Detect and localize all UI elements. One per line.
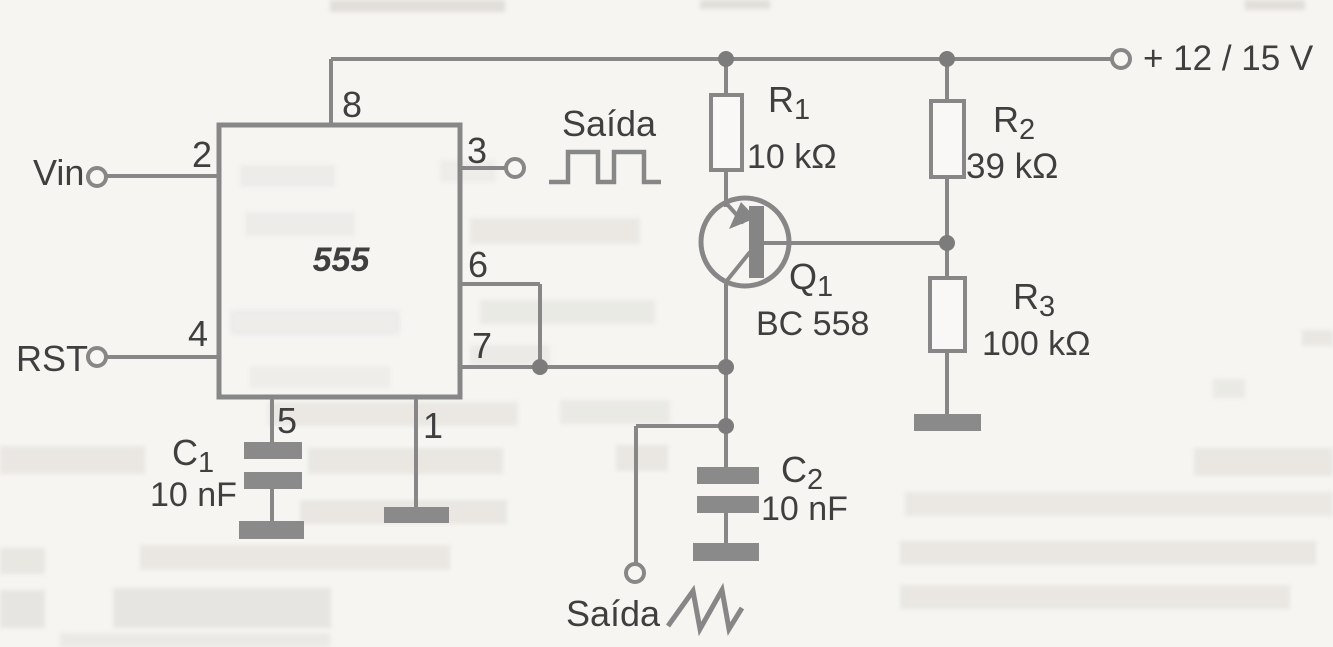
- transistor Q1 base bar: [749, 206, 764, 278]
- svg-text:Saída: Saída: [566, 593, 661, 634]
- svg-text:8: 8: [342, 84, 362, 125]
- terminal RST: [88, 348, 106, 366]
- junction dot collector/pin7: [718, 359, 734, 375]
- transistor Q1 collector lead: [725, 252, 750, 283]
- svg-text:+ 12 / 15 V: + 12 / 15 V: [1143, 39, 1314, 78]
- capacitor C2 bottom plate: [697, 496, 759, 513]
- capacitor C2 top plate: [697, 467, 759, 484]
- svg-text:3: 3: [467, 130, 487, 171]
- svg-text:39 kΩ: 39 kΩ: [966, 147, 1058, 186]
- resistor R3 body: [930, 278, 965, 351]
- wire: R2 to base node: [945, 177, 949, 278]
- capacitor C1 bottom plate: [244, 472, 302, 489]
- ground below pin 1: [384, 507, 449, 523]
- svg-text:RST: RST: [16, 338, 88, 379]
- svg-text:10 kΩ: 10 kΩ: [747, 138, 837, 176]
- wire: pin 1 down to ground: [414, 397, 418, 507]
- wire: transistor base to R2/R3 node: [764, 241, 947, 245]
- svg-text:Saída: Saída: [562, 103, 657, 144]
- ground below R3: [914, 414, 981, 431]
- wire: C1 lower plate to ground: [270, 489, 274, 521]
- wire: C2 lower plate to ground: [724, 513, 728, 543]
- IC U1 555 body: [219, 125, 460, 397]
- wire: pin 2 to Vin terminal: [106, 174, 219, 178]
- terminal Vin: [88, 168, 106, 186]
- transistor Q1 emitter lead: [726, 203, 744, 223]
- svg-text:1: 1: [423, 405, 443, 446]
- svg-text:Vin: Vin: [33, 152, 84, 193]
- transistor Q1 circle: [701, 198, 789, 286]
- svg-text:7: 7: [472, 325, 492, 366]
- svg-text:555: 555: [313, 241, 371, 279]
- svg-text:10 nF: 10 nF: [150, 476, 237, 514]
- svg-text:2: 2: [192, 134, 212, 175]
- square wave symbol: [549, 152, 661, 182]
- resistor R1 body: [711, 95, 742, 170]
- ground below C1: [239, 521, 304, 539]
- wire: rail down to R1: [724, 59, 728, 95]
- wire: pin 6 horizontal: [461, 282, 540, 286]
- svg-text:5: 5: [277, 400, 297, 441]
- wire: pin 3 to output terminal: [461, 166, 506, 170]
- svg-text:6: 6: [468, 244, 488, 285]
- wire: pin 5 down to C1: [270, 397, 274, 442]
- transistor Q1 emitter arrow: [729, 202, 756, 229]
- junction dot pin6/pin7: [532, 359, 548, 375]
- wire: pin 8 to rail: [329, 59, 333, 125]
- wire: transistor collector down to node A: [724, 280, 728, 426]
- capacitor C1 top plate: [244, 442, 302, 459]
- wire: rail down to R2: [945, 59, 949, 101]
- junction dot node A: [718, 418, 734, 434]
- wire: R3 to ground: [945, 351, 949, 414]
- svg-text:100 kΩ: 100 kΩ: [982, 325, 1091, 363]
- svg-text:10 nF: 10 nF: [761, 490, 848, 528]
- terminal Saida sawtooth output: [626, 564, 644, 582]
- resistor R2 body: [931, 101, 964, 177]
- junction dot rail/R1: [718, 51, 734, 67]
- wire: pin 7 to transistor collector node: [461, 365, 726, 369]
- wire: pin 4 to RST terminal: [106, 355, 219, 359]
- wire: pin 6 down to pin 7 net: [538, 284, 542, 367]
- junction dot rail/R2: [939, 51, 955, 67]
- wire: R1 to transistor emitter: [724, 170, 728, 207]
- sawtooth wave symbol: [668, 590, 742, 629]
- terminal +12/15V: [1112, 50, 1130, 68]
- ground below C2: [693, 543, 759, 561]
- wire: sawtooth output vertical: [634, 426, 638, 564]
- svg-text:4: 4: [188, 313, 208, 354]
- svg-text:BC 558: BC 558: [756, 305, 869, 343]
- wire: sawtooth output up to node A: [636, 424, 726, 428]
- junction dot base node: [939, 235, 955, 251]
- wire: +V top rail: [331, 57, 1112, 61]
- terminal pin3 output: [506, 159, 524, 177]
- wire: node A down to C2: [724, 426, 728, 467]
